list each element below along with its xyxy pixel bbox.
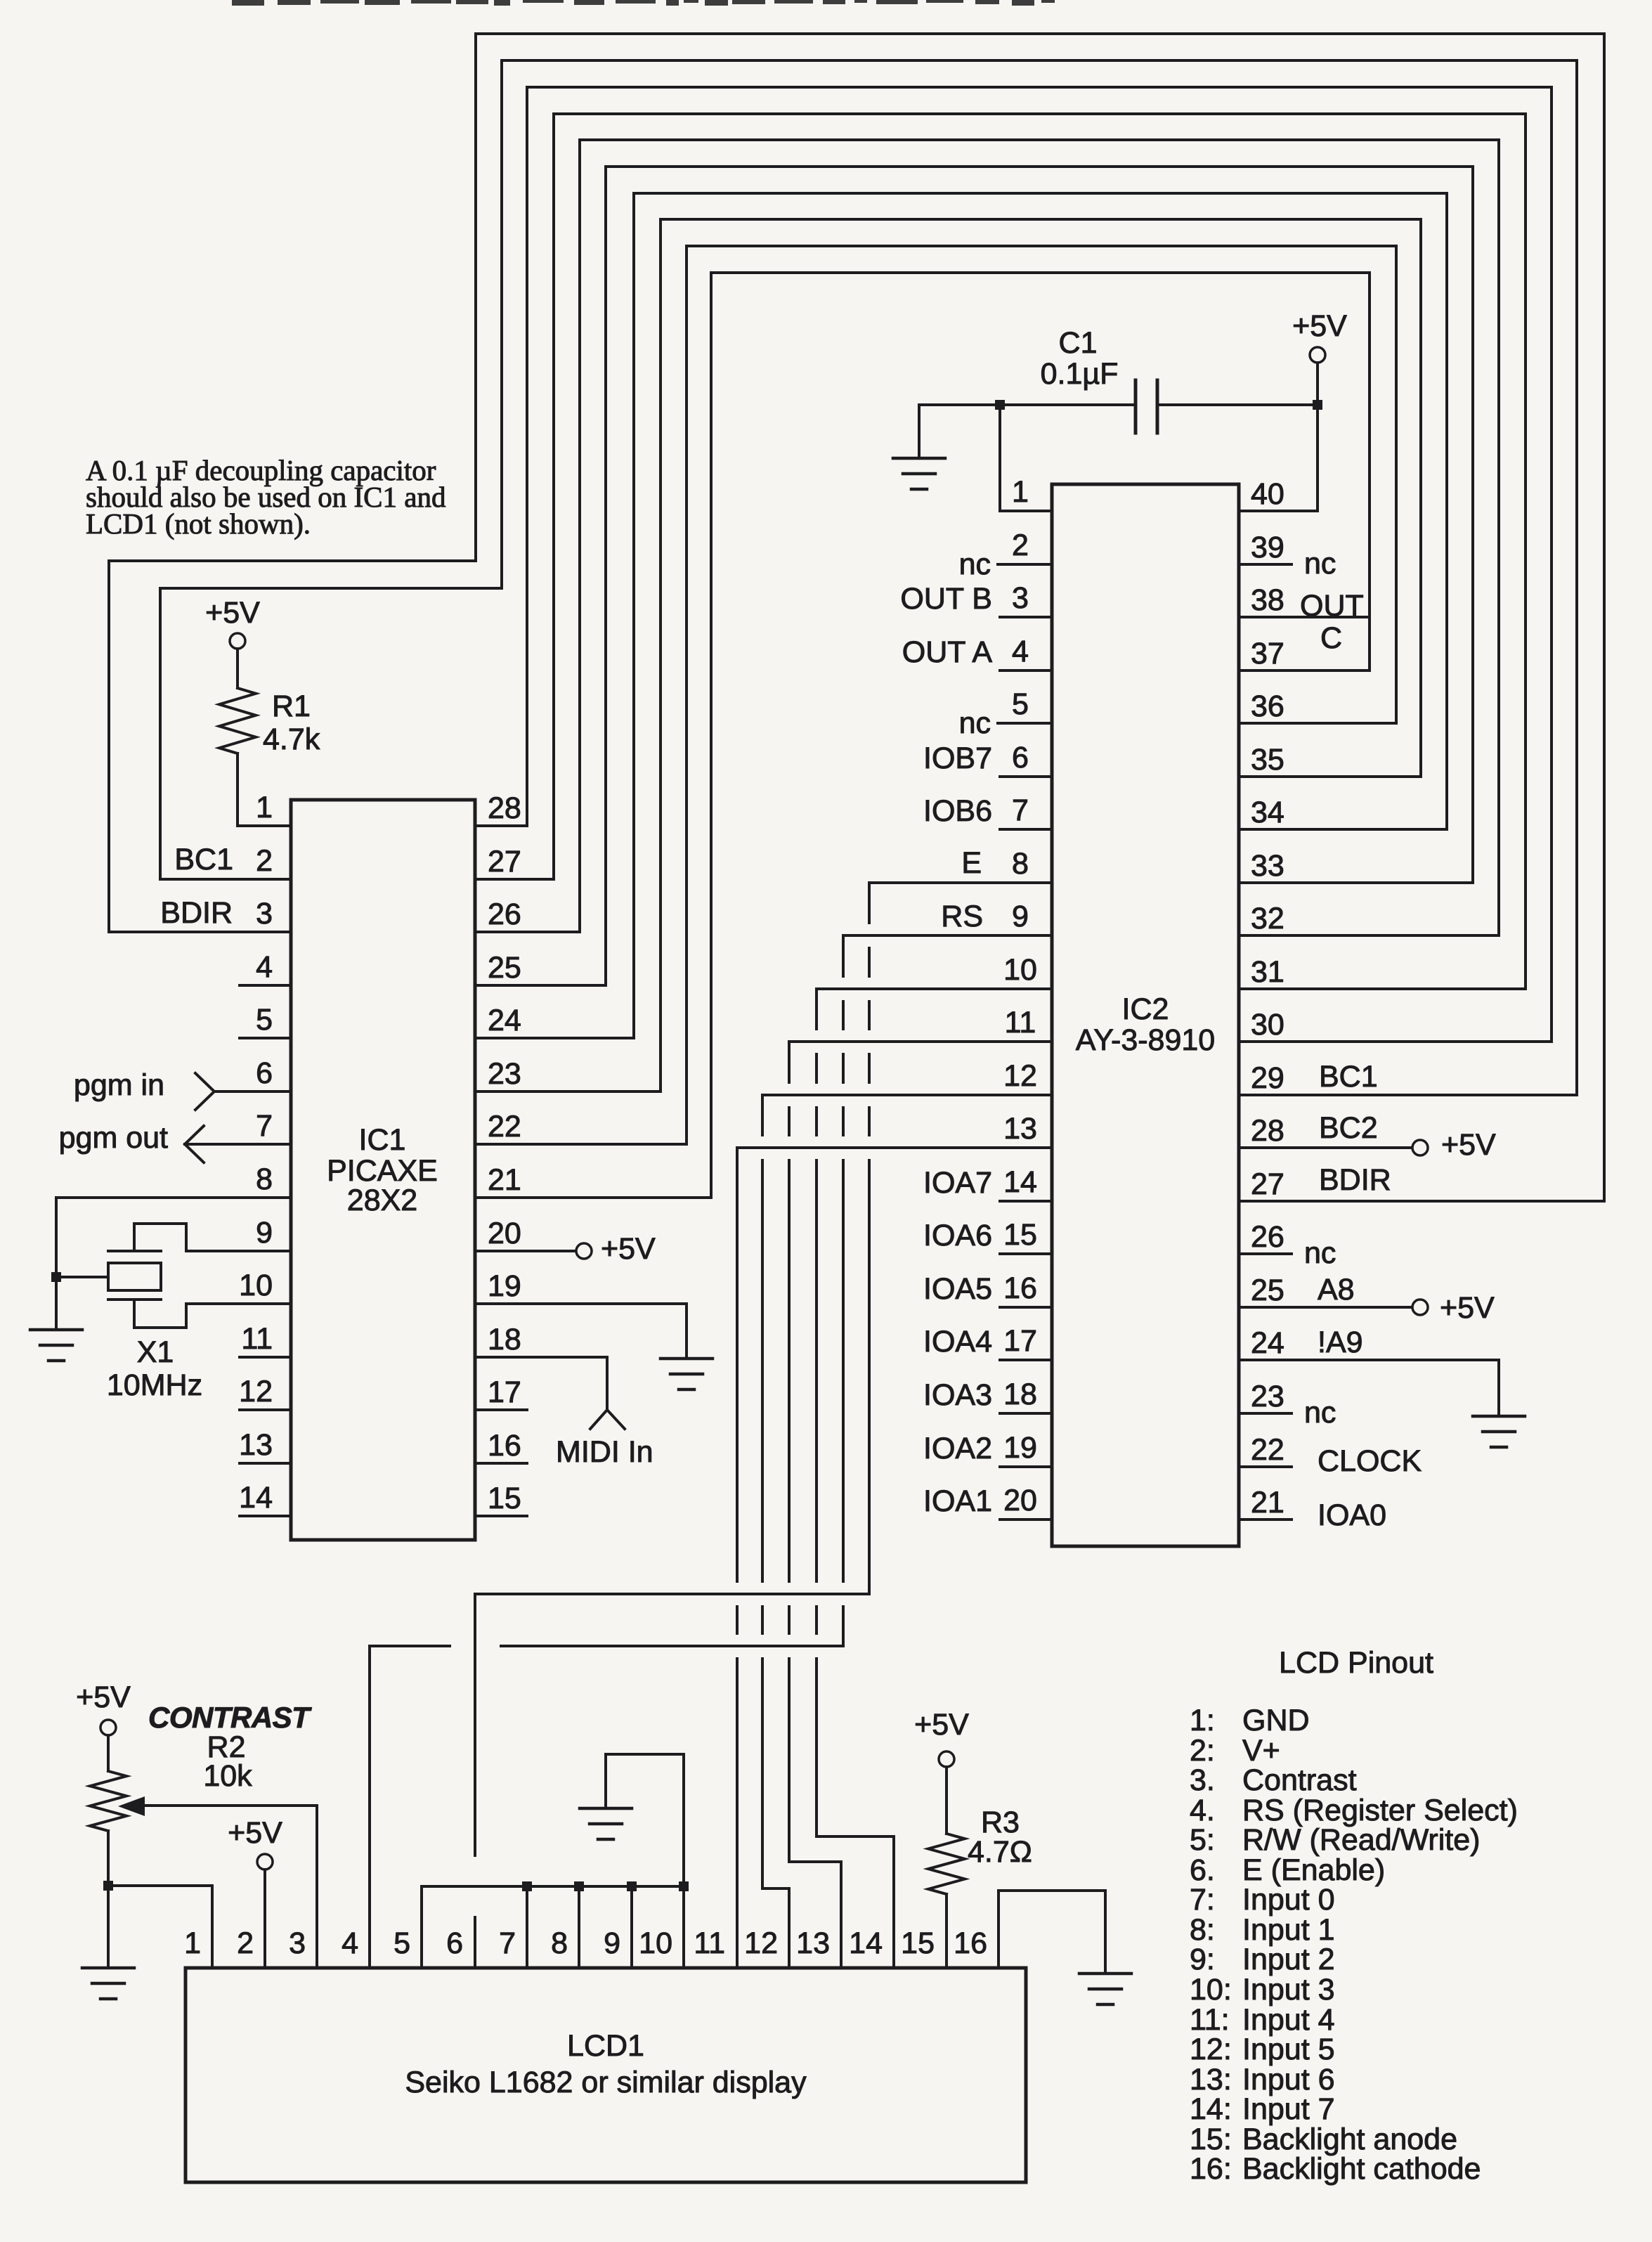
svg-text:13:: 13: xyxy=(1190,2063,1232,2097)
node tie junction pin7 xyxy=(522,1881,532,1891)
wire bus IC1 pin25 to IC2 pin33 xyxy=(475,167,1473,985)
svg-text:10: 10 xyxy=(239,1269,273,1302)
svg-text:33: 33 xyxy=(1251,849,1284,883)
svg-text:3.: 3. xyxy=(1190,1763,1215,1797)
svg-text:40: 40 xyxy=(1251,477,1284,511)
svg-text:MIDI In: MIDI In xyxy=(556,1435,653,1469)
svg-text:16:: 16: xyxy=(1190,2152,1232,2186)
svg-text:CONTRAST: CONTRAST xyxy=(148,1701,312,1734)
svg-text:RS: RS xyxy=(941,900,983,933)
svg-text:37: 37 xyxy=(1251,637,1284,670)
svg-text:+5V: +5V xyxy=(1440,1291,1495,1325)
svg-text:38: 38 xyxy=(1251,583,1284,617)
svg-text:12: 12 xyxy=(744,1926,778,1960)
IC2 pin29 BC1 label xyxy=(1319,1060,1378,1094)
svg-text:23: 23 xyxy=(1251,1380,1284,1413)
svg-text:6.: 6. xyxy=(1190,1853,1215,1887)
svg-text:IOB7: IOB7 xyxy=(923,741,992,775)
IC2 pin 2 nc stub xyxy=(959,547,1052,581)
svg-text:31: 31 xyxy=(1251,955,1284,989)
svg-text:Input 5: Input 5 xyxy=(1242,2033,1335,2066)
IC1 pin 12 stub xyxy=(240,1408,291,1411)
IC2 pin 15 IOA6 stub xyxy=(923,1219,1052,1254)
svg-text:IOA1: IOA1 xyxy=(923,1484,992,1518)
svg-text:3: 3 xyxy=(1012,581,1029,615)
svg-text:R/W (Read/Write): R/W (Read/Write) xyxy=(1242,1823,1480,1857)
IC2 pin8 E wire xyxy=(869,846,1052,883)
IC2 pin 19 IOA2 stub xyxy=(923,1432,1052,1467)
svg-text:Input 7: Input 7 xyxy=(1242,2092,1335,2126)
svg-text:7: 7 xyxy=(256,1109,273,1143)
IC2 pin13 wire xyxy=(737,1146,1052,1149)
svg-text:nc: nc xyxy=(1304,1236,1336,1270)
IC1 pin 16 stub xyxy=(475,1462,527,1465)
svg-text:+5V: +5V xyxy=(1441,1128,1496,1162)
resistor R1 4.7k xyxy=(219,649,320,826)
wire tie to ground hood xyxy=(606,1754,684,1886)
svg-text:16: 16 xyxy=(954,1926,987,1960)
svg-text:Input 0: Input 0 xyxy=(1242,1883,1335,1917)
svg-text:Input 3: Input 3 xyxy=(1242,1973,1335,2007)
svg-text:2: 2 xyxy=(256,844,273,878)
wire bus IC2 pin13 to LCD pin11 xyxy=(736,1148,739,1968)
svg-text:+5V: +5V xyxy=(914,1708,969,1742)
wire bus IC1 pin23 to IC2 pin35 xyxy=(475,219,1421,1091)
wire LCD pin5 ground tie xyxy=(422,1886,684,1968)
IC2 pin 20 IOA1 stub xyxy=(923,1484,1052,1519)
IC2 pin10 wire xyxy=(817,987,1052,990)
svg-text:39: 39 xyxy=(1251,531,1284,564)
svg-text:13: 13 xyxy=(1003,1112,1037,1146)
R2 wiper arrow to LCD pin3 xyxy=(118,1796,317,1968)
wire IC1 pin19 to ground xyxy=(475,1304,687,1357)
svg-text:V+: V+ xyxy=(1242,1734,1280,1768)
note text: decoupling capacitor annotation xyxy=(86,454,445,540)
IC2 pin 18 IOA3 stub xyxy=(923,1378,1052,1413)
svg-text:IOA3: IOA3 xyxy=(923,1378,992,1412)
LCD1 label xyxy=(405,2029,807,2099)
svg-text:6: 6 xyxy=(1012,741,1029,775)
svg-text:36: 36 xyxy=(1251,689,1284,723)
svg-text:32: 32 xyxy=(1251,902,1284,935)
svg-text:21: 21 xyxy=(488,1163,521,1197)
IC1 pin 4 stub xyxy=(240,984,291,987)
svg-text:BC1: BC1 xyxy=(174,843,233,876)
IC2 pin 14 IOA7 stub xyxy=(923,1166,1052,1201)
svg-text:3: 3 xyxy=(256,897,273,931)
svg-text:IC2: IC2 xyxy=(1122,992,1169,1026)
svg-text:9: 9 xyxy=(604,1926,620,1960)
wire bus E vertical (IC2 pin8 to LCD pin6) xyxy=(475,883,869,1968)
svg-text:28: 28 xyxy=(488,791,521,825)
svg-text:BDIR: BDIR xyxy=(160,896,233,930)
wire bus IC1 pin26 to IC2 pin32 xyxy=(475,140,1499,935)
IC2 pin39 nc stub xyxy=(1239,547,1336,581)
IC2 pin22 CLOCK stub xyxy=(1239,1444,1422,1478)
svg-text:E: E xyxy=(961,846,982,880)
svg-text:11: 11 xyxy=(1005,1006,1036,1039)
IC2 pin 16 IOA5 stub xyxy=(923,1272,1052,1307)
svg-text:15: 15 xyxy=(901,1926,935,1960)
svg-text:LCD1 (not shown).: LCD1 (not shown). xyxy=(86,507,311,540)
svg-text:7: 7 xyxy=(1012,793,1029,827)
svg-text:11: 11 xyxy=(694,1926,725,1960)
IC2 pin27 BDIR label xyxy=(1319,1163,1391,1197)
svg-text:24: 24 xyxy=(488,1004,521,1037)
svg-text:4: 4 xyxy=(1012,635,1029,668)
svg-text:nc: nc xyxy=(959,706,991,740)
IC2 pin11 wire xyxy=(789,1040,1052,1043)
svg-text:IOA5: IOA5 xyxy=(923,1272,992,1306)
svg-text:35: 35 xyxy=(1251,743,1284,777)
svg-text:9:: 9: xyxy=(1190,1943,1215,1976)
power +5V (R1 top) xyxy=(205,596,260,649)
svg-text:24: 24 xyxy=(1251,1326,1284,1360)
wire LCD pin8 stub xyxy=(578,1886,580,1968)
svg-text:28: 28 xyxy=(1251,1114,1284,1148)
power +5V (R3 top) xyxy=(914,1708,969,1767)
wire IC1 pin8 to ground xyxy=(56,1198,291,1328)
svg-text:1: 1 xyxy=(184,1926,201,1960)
svg-text:+5V: +5V xyxy=(1292,309,1347,343)
svg-text:nc: nc xyxy=(1304,547,1336,581)
svg-text:Input 2: Input 2 xyxy=(1242,1943,1335,1976)
svg-text:13: 13 xyxy=(796,1926,830,1960)
wire IC1 pin9 to crystal top xyxy=(134,1224,291,1251)
svg-text:5: 5 xyxy=(394,1926,410,1960)
svg-text:+5V: +5V xyxy=(601,1232,656,1266)
svg-text:Seiko L1682 or similar display: Seiko L1682 or similar display xyxy=(405,2066,807,2099)
svg-text:8: 8 xyxy=(551,1926,568,1960)
svg-text:12: 12 xyxy=(239,1375,273,1408)
svg-text:11: 11 xyxy=(241,1322,273,1356)
ground (IC2 pin24) xyxy=(1473,1416,1525,1447)
IC1 pin3 label BDIR xyxy=(160,896,233,930)
svg-text:27: 27 xyxy=(488,845,521,879)
svg-text:GND: GND xyxy=(1242,1704,1310,1737)
svg-text:RS (Register Select): RS (Register Select) xyxy=(1242,1794,1518,1827)
svg-text:19: 19 xyxy=(1003,1431,1037,1465)
svg-text:19: 19 xyxy=(488,1269,521,1303)
svg-text:8: 8 xyxy=(256,1162,273,1196)
svg-text:30: 30 xyxy=(1251,1008,1284,1042)
IC2 pin9 RS wire xyxy=(843,900,1052,935)
IC2 AY-3-8910 body xyxy=(1052,484,1239,1546)
svg-text:14:: 14: xyxy=(1190,2092,1232,2126)
svg-text:16: 16 xyxy=(1003,1271,1037,1305)
IC2 pin 5 nc stub xyxy=(959,706,1052,740)
svg-text:4.: 4. xyxy=(1190,1794,1215,1827)
svg-text:Backlight anode: Backlight anode xyxy=(1242,2123,1457,2156)
svg-text:Input 4: Input 4 xyxy=(1242,2003,1335,2037)
svg-text:nc: nc xyxy=(959,547,991,581)
svg-text:Input 6: Input 6 xyxy=(1242,2063,1335,2097)
svg-text:10: 10 xyxy=(1003,953,1037,987)
ground (R2) xyxy=(82,1968,134,1999)
wire IC2 pin1 to C1 xyxy=(1000,405,1052,511)
svg-text:pgm in: pgm in xyxy=(74,1068,164,1102)
svg-text:4: 4 xyxy=(342,1926,358,1960)
svg-text:34: 34 xyxy=(1251,796,1284,829)
IC2 pin21 IOA0 stub xyxy=(1239,1498,1386,1532)
svg-text:20: 20 xyxy=(1003,1484,1037,1517)
IC1 pin 14 stub xyxy=(240,1515,291,1517)
IC1 PICAXE 28X2 body xyxy=(291,800,475,1540)
svg-text:18: 18 xyxy=(1003,1378,1037,1411)
svg-text:Contrast: Contrast xyxy=(1242,1763,1357,1797)
IC2 left pin numbers 1-20 xyxy=(1003,475,1037,1517)
wire IC1 pin1 to R1 xyxy=(238,824,291,827)
svg-text:PICAXE: PICAXE xyxy=(327,1154,438,1188)
svg-text:1: 1 xyxy=(256,791,273,824)
node C1 left junction xyxy=(995,400,1005,410)
node crystal-ground junction xyxy=(51,1272,61,1282)
svg-text:IOA4: IOA4 xyxy=(923,1325,992,1359)
wire LCD pin10 stub xyxy=(682,1886,685,1968)
IC2 pin 6 IOB7 stub xyxy=(923,741,1052,777)
svg-text:nc: nc xyxy=(1304,1396,1336,1430)
IC1 pin 15 stub xyxy=(475,1515,527,1517)
wire bus IC2 pin12 to LCD pin12 xyxy=(762,1095,789,1968)
IC2 pin26 nc stub xyxy=(1239,1236,1336,1270)
IC2 label xyxy=(1076,992,1215,1057)
IC2 pin 7 IOB6 stub xyxy=(923,794,1052,829)
ground (IC1 pin19) xyxy=(661,1359,713,1389)
capacitor C1 0.1uF xyxy=(919,326,1318,433)
IC2 pin 3 OUT B stub xyxy=(900,582,1052,617)
svg-text:2: 2 xyxy=(237,1926,254,1960)
svg-text:IC1: IC1 xyxy=(359,1123,406,1157)
svg-text:LCD Pinout: LCD Pinout xyxy=(1279,1646,1433,1680)
ground (C1) xyxy=(893,405,945,489)
svg-text:9: 9 xyxy=(256,1216,273,1250)
svg-text:C: C xyxy=(1320,621,1342,655)
svg-text:Backlight cathode: Backlight cathode xyxy=(1242,2152,1481,2186)
svg-text:26: 26 xyxy=(1251,1220,1284,1254)
IC1 label xyxy=(327,1123,438,1217)
svg-text:5: 5 xyxy=(256,1003,273,1037)
svg-text:IOA7: IOA7 xyxy=(923,1166,992,1200)
wire IC1 pin18 MIDI In xyxy=(475,1357,653,1469)
svg-text:+5V: +5V xyxy=(205,596,260,630)
svg-text:17: 17 xyxy=(488,1375,521,1409)
svg-text:BC2: BC2 xyxy=(1319,1111,1378,1145)
IC1 left pin numbers 1-14 xyxy=(239,791,273,1515)
svg-text:BC1: BC1 xyxy=(1319,1060,1378,1094)
IC2 pin 4 OUT A stub xyxy=(902,635,1052,670)
svg-text:7: 7 xyxy=(499,1926,516,1960)
wire bus IC1 pin21 to IC2 pin38 xyxy=(475,273,1370,1198)
wire bus IC1 pin22 to IC2 pin36 xyxy=(475,246,1396,1144)
svg-text:21: 21 xyxy=(1251,1486,1284,1519)
svg-text:10: 10 xyxy=(639,1926,672,1960)
svg-text:Input 1: Input 1 xyxy=(1242,1913,1335,1947)
svg-text:20: 20 xyxy=(488,1217,521,1250)
power +5V (R2 top) xyxy=(76,1680,131,1735)
svg-text:1:: 1: xyxy=(1190,1704,1215,1737)
svg-text:R3: R3 xyxy=(981,1806,1020,1839)
svg-text:OUT A: OUT A xyxy=(902,635,993,669)
svg-text:15: 15 xyxy=(1003,1218,1037,1252)
IC1 pin 5 stub xyxy=(240,1037,291,1039)
svg-text:OUT B: OUT B xyxy=(900,582,992,616)
node tie junction pin10 xyxy=(679,1881,689,1891)
IC2 right pin numbers 40-21 xyxy=(1251,477,1284,1519)
IC2 pin 17 IOA4 stub xyxy=(923,1325,1052,1360)
svg-text:8: 8 xyxy=(1012,847,1029,881)
wire LCD pin1 to R2 wiper junction xyxy=(108,1886,212,1968)
resistor R3 4.7ohm xyxy=(928,1767,1032,1968)
svg-text:LCD1: LCD1 xyxy=(567,2029,644,2063)
svg-text:4.7k: 4.7k xyxy=(263,723,320,756)
svg-text:IOA2: IOA2 xyxy=(923,1432,992,1465)
svg-text:26: 26 xyxy=(488,898,521,931)
ground (LCD pin16) xyxy=(1079,1974,1131,2004)
svg-text:27: 27 xyxy=(1251,1167,1284,1201)
wire IC1 pin10 to crystal bottom xyxy=(134,1300,291,1328)
wire LCD pin16 to ground xyxy=(999,1891,1105,1972)
svg-text:6: 6 xyxy=(256,1056,273,1090)
cut-off text fragment at top edge xyxy=(232,0,1055,6)
wire crystal left terminal xyxy=(56,1276,108,1278)
svg-text:5: 5 xyxy=(1012,687,1029,721)
IC1 pin 11 stub xyxy=(240,1356,291,1359)
svg-text:25: 25 xyxy=(488,951,521,985)
svg-text:10k: 10k xyxy=(203,1759,252,1793)
node tie junction pin9 xyxy=(627,1881,637,1891)
svg-text:28X2: 28X2 xyxy=(347,1184,417,1217)
svg-text:12: 12 xyxy=(1003,1059,1037,1093)
svg-text:pgm out: pgm out xyxy=(59,1121,168,1155)
svg-text:5:: 5: xyxy=(1190,1823,1215,1857)
svg-text:22: 22 xyxy=(1251,1433,1284,1467)
svg-text:16: 16 xyxy=(488,1429,521,1463)
power +5V (LCD pin2) xyxy=(228,1816,282,1968)
wire bus IC2 pin11 to LCD pin13 xyxy=(789,1042,841,1968)
potentiometer R2 10k CONTRAST xyxy=(90,1701,312,1886)
svg-text:E (Enable): E (Enable) xyxy=(1242,1853,1385,1887)
svg-text:14: 14 xyxy=(849,1926,883,1960)
svg-text:+5V: +5V xyxy=(228,1816,282,1850)
svg-text:8:: 8: xyxy=(1190,1913,1215,1947)
svg-text:CLOCK: CLOCK xyxy=(1318,1444,1422,1478)
LCD pinout legend xyxy=(1190,1646,1518,2186)
svg-text:15: 15 xyxy=(488,1482,521,1515)
wire BDIR net (IC1 pin3 around top to IC2 pin27) xyxy=(109,34,1604,1201)
svg-text:IOB6: IOB6 xyxy=(923,794,992,828)
node tie junction pin8 xyxy=(574,1881,584,1891)
wire bus IC1 pin27 to IC2 pin31 xyxy=(475,114,1526,989)
wire R2 bottom to ground xyxy=(107,1886,110,1966)
IC1 pin7 pgm out arrow xyxy=(59,1121,291,1162)
wire BC1 net (IC1 pin2 around top to IC2 pin29) xyxy=(160,60,1577,1095)
power +5V (IC1 pin20) xyxy=(475,1232,656,1266)
wire IC2 pin40 to +5V xyxy=(1239,405,1318,511)
crystal X1 10MHz xyxy=(107,1251,202,1402)
svg-text:3: 3 xyxy=(289,1926,306,1960)
svg-text:6: 6 xyxy=(446,1926,463,1960)
wire bus IC1 pin28 to IC2 pin30 xyxy=(475,87,1552,1042)
svg-text:0.1µF: 0.1µF xyxy=(1041,357,1119,391)
svg-text:10MHz: 10MHz xyxy=(107,1368,202,1402)
svg-text:OUT: OUT xyxy=(1300,589,1364,623)
IC1 pin6 pgm in arrow xyxy=(74,1068,291,1110)
LCD pin numbers 1-16 xyxy=(184,1926,987,1960)
svg-text:C1: C1 xyxy=(1059,326,1098,360)
IC2 pin28 BC2 +5V xyxy=(1239,1111,1496,1162)
svg-text:29: 29 xyxy=(1251,1061,1284,1095)
svg-text:4: 4 xyxy=(256,950,273,984)
power +5V (IC2 pin40) xyxy=(1292,309,1347,405)
svg-text:A8: A8 xyxy=(1318,1273,1355,1307)
IC2 pin24 !A9 to ground xyxy=(1239,1326,1499,1415)
svg-text:R1: R1 xyxy=(272,689,311,723)
IC1 right pin numbers 28-15 xyxy=(488,791,521,1515)
svg-text:13: 13 xyxy=(239,1428,273,1462)
svg-text:22: 22 xyxy=(488,1110,521,1143)
wire LCD pin7 stub xyxy=(526,1886,528,1968)
node R2 bottom junction xyxy=(103,1881,113,1891)
svg-text:2:: 2: xyxy=(1190,1734,1215,1768)
svg-text:+5V: +5V xyxy=(76,1680,131,1714)
svg-text:7:: 7: xyxy=(1190,1883,1215,1917)
IC2 pin12 wire xyxy=(762,1094,1052,1096)
svg-text:14: 14 xyxy=(1003,1165,1037,1199)
node C1 right junction xyxy=(1313,400,1322,410)
svg-text:IOA0: IOA0 xyxy=(1318,1498,1386,1532)
IC1 pin 17 stub xyxy=(475,1408,527,1411)
svg-text:25: 25 xyxy=(1251,1274,1284,1307)
svg-text:10:: 10: xyxy=(1190,1973,1232,2007)
svg-text:!A9: !A9 xyxy=(1318,1326,1363,1359)
svg-text:17: 17 xyxy=(1003,1324,1037,1358)
svg-text:AY-3-8910: AY-3-8910 xyxy=(1076,1023,1215,1057)
svg-text:2: 2 xyxy=(1012,529,1029,562)
svg-text:15:: 15: xyxy=(1190,2123,1232,2156)
IC2 pin25 A8 +5V xyxy=(1239,1273,1495,1325)
wire bus RS vertical (IC2 pin9 to LCD pin4) xyxy=(370,935,843,1968)
wire bus IC2 pin10 to LCD pin14 xyxy=(817,989,894,1968)
IC2 pin23 nc stub xyxy=(1239,1396,1336,1430)
svg-text:14: 14 xyxy=(239,1481,273,1515)
svg-text:11:: 11: xyxy=(1190,2003,1230,2037)
LCD1 body xyxy=(186,1968,1026,2182)
IC1 pin 13 stub xyxy=(240,1462,291,1465)
svg-text:12:: 12: xyxy=(1190,2033,1232,2066)
svg-text:1: 1 xyxy=(1012,475,1029,509)
svg-text:X1: X1 xyxy=(137,1335,174,1369)
wire LCD pin9 stub xyxy=(630,1886,633,1968)
svg-text:23: 23 xyxy=(488,1057,521,1091)
IC2 pins38/37 OUT C label xyxy=(1300,589,1364,655)
ground (crystal) xyxy=(30,1330,82,1361)
svg-text:18: 18 xyxy=(488,1323,521,1356)
ground (LCD input tie) xyxy=(580,1808,632,1839)
svg-text:BDIR: BDIR xyxy=(1319,1163,1391,1197)
svg-text:4.7Ω: 4.7Ω xyxy=(968,1835,1032,1869)
wire bus IC1 pin24 to IC2 pin34 xyxy=(475,193,1447,1038)
svg-text:9: 9 xyxy=(1012,900,1029,933)
svg-text:IOA6: IOA6 xyxy=(923,1219,992,1252)
IC1 pin2 label BC1 xyxy=(174,843,233,876)
